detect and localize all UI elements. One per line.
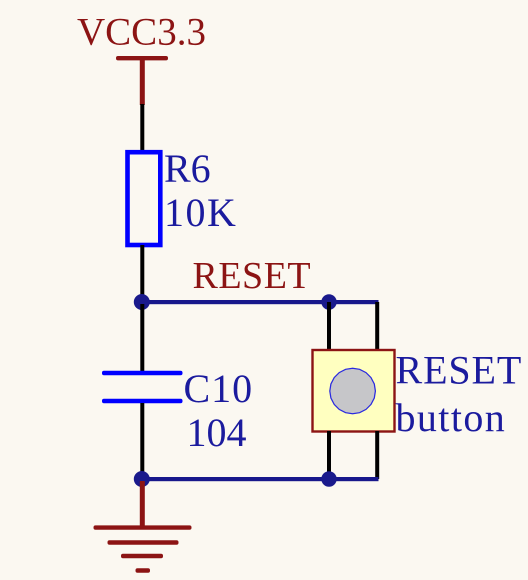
wire junction to button pin1 [327,302,331,352]
svg-text:button: button [396,395,507,440]
junction top-left [134,294,150,310]
wire R6 to node [140,245,144,302]
ground [94,481,192,573]
wire C10 to bottom node [140,403,144,479]
capacitor C10 [102,366,253,455]
svg-text:R6: R6 [164,146,211,191]
svg-text:104: 104 [187,410,247,455]
wire button pin4 to bottom wire [375,431,379,479]
junction top-right [321,294,336,309]
switch S1 RESET button [313,348,523,441]
svg-text:RESET: RESET [193,255,312,297]
svg-text:VCC3.3: VCC3.3 [77,11,206,54]
wire corner to button pin2 [375,302,379,352]
resistor R6 [128,146,238,245]
svg-text:RESET: RESET [396,348,523,393]
svg-text:10K: 10K [164,190,237,235]
wire button pin3 to bottom wire [327,431,331,479]
svg-text:C10: C10 [184,366,254,411]
wire horizontal bottom [140,477,379,481]
node RESET label [193,255,312,297]
power symbol VCC3.3 [77,11,206,106]
wire VCC to R6 [140,104,144,152]
junction bottom-left [134,471,150,487]
wire horizontal top [140,300,379,304]
junction bottom-right [321,471,336,486]
wire node to C10 [140,304,144,372]
